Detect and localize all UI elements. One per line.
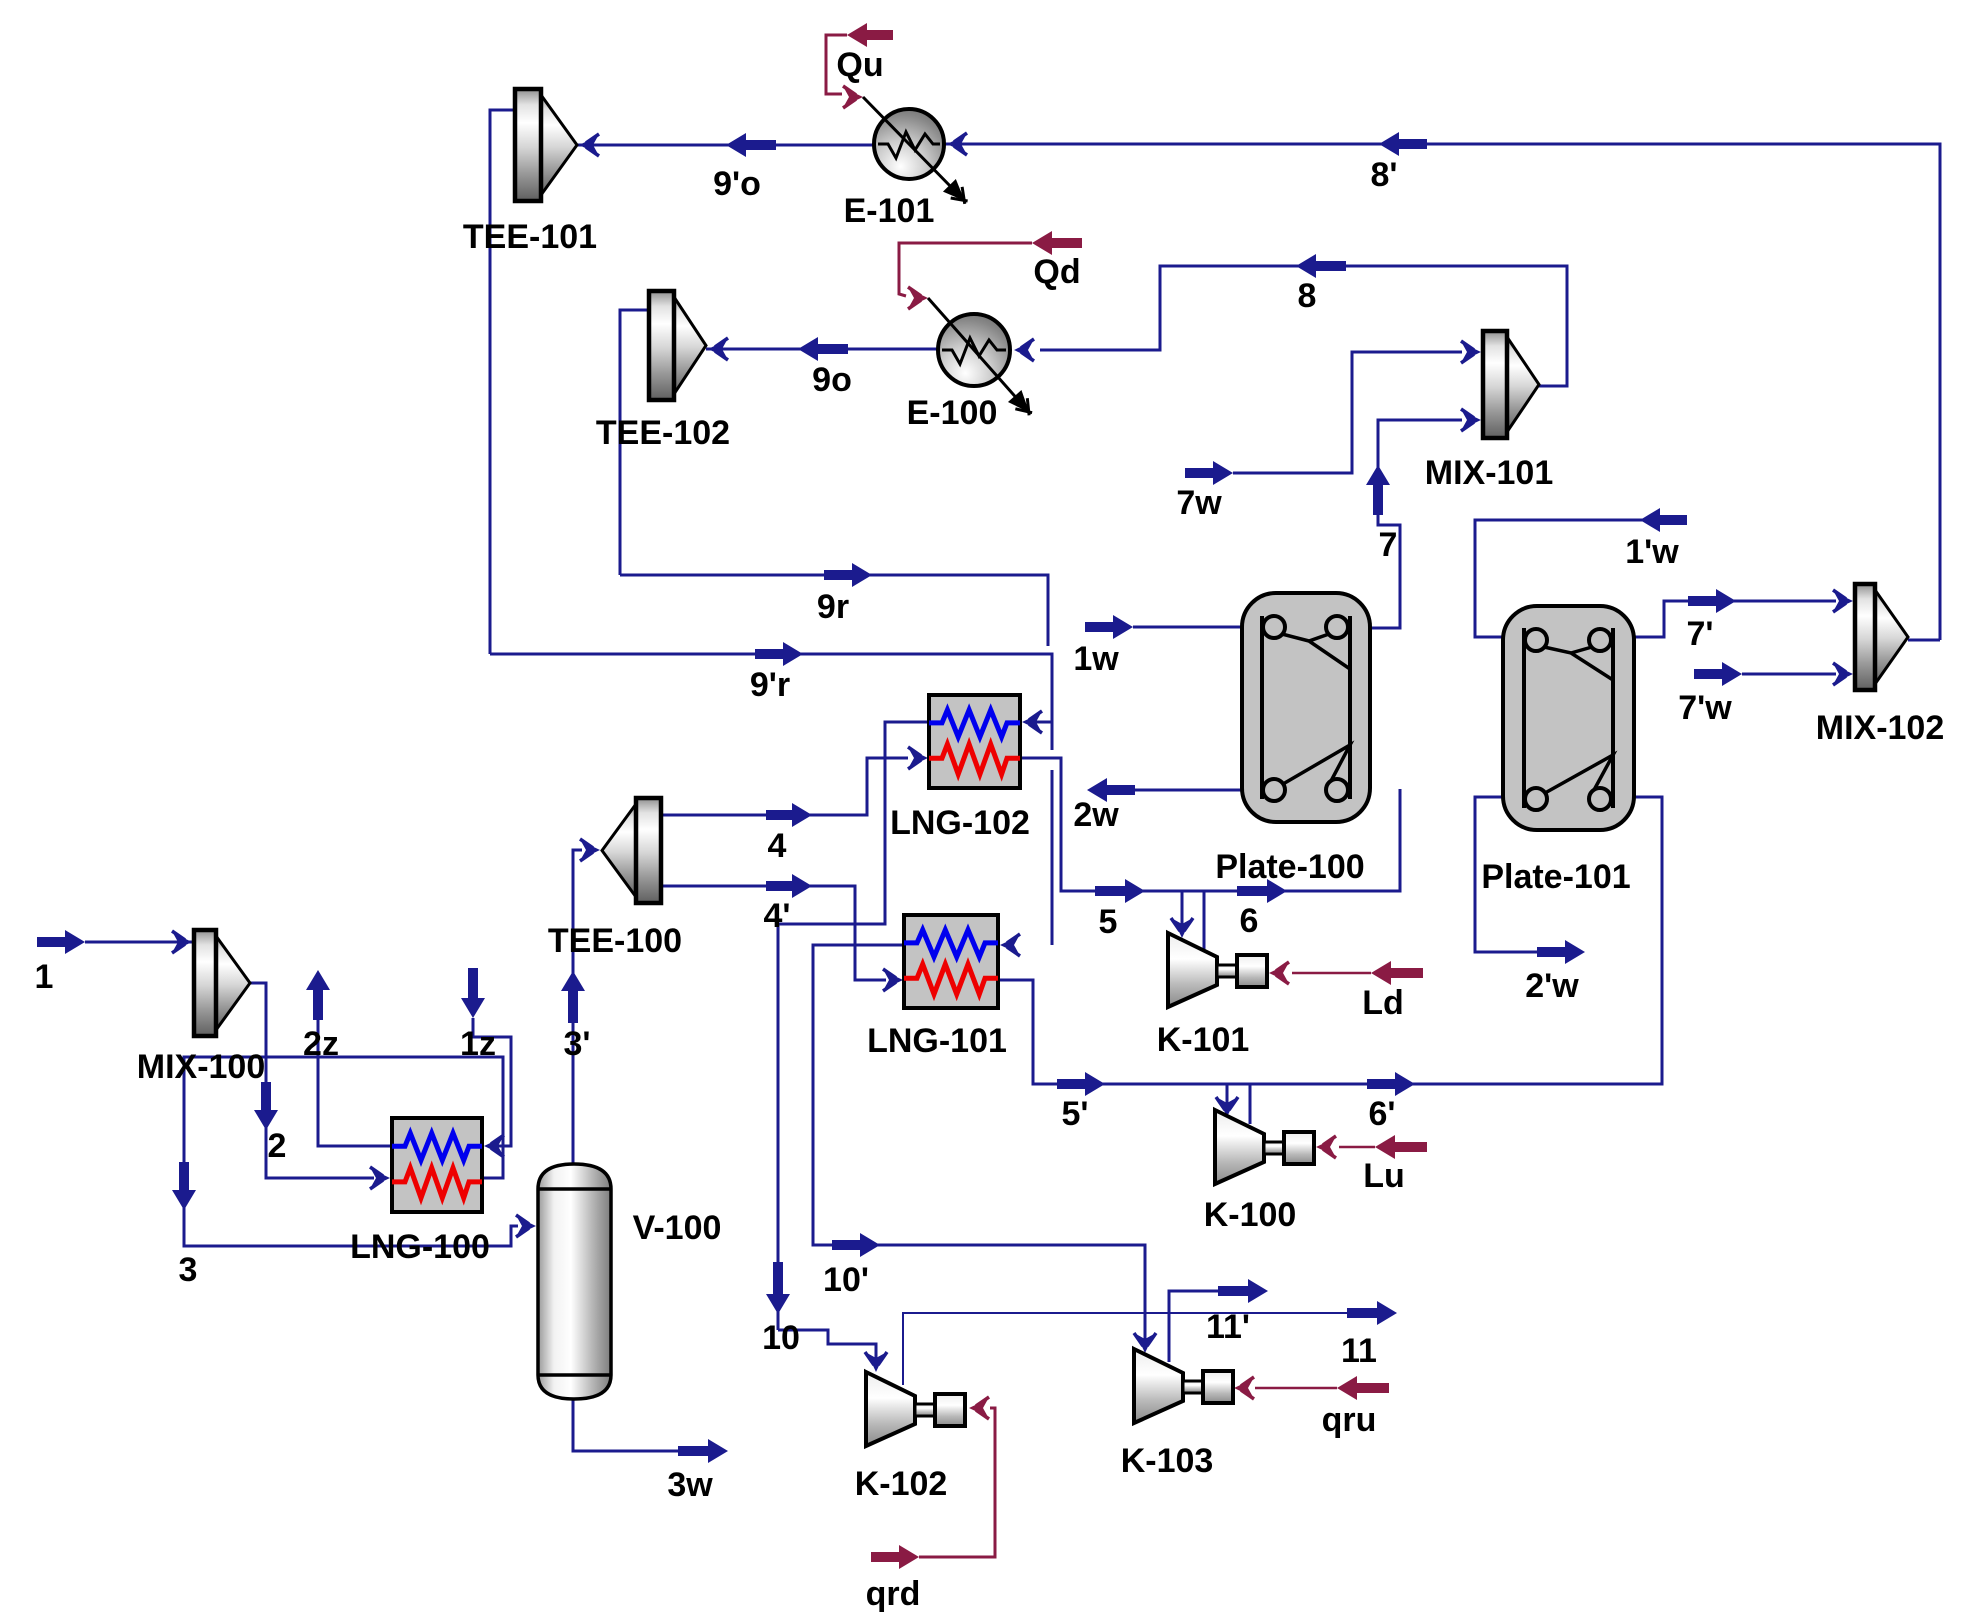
wire 7w bbox=[1185, 461, 1233, 485]
mixer MIX-102 bbox=[1855, 584, 1908, 690]
svg-text:Qd: Qd bbox=[1033, 253, 1080, 291]
separator V-100 bbox=[538, 1164, 611, 1399]
wire 5' and 6' bbox=[998, 797, 1662, 1084]
LNG exchanger LNG-100 bbox=[392, 1118, 482, 1212]
compressor K-103 bbox=[1134, 1349, 1233, 1423]
energy stream Ld bbox=[1371, 961, 1423, 985]
svg-text:LNG-102: LNG-102 bbox=[890, 804, 1030, 842]
wire 7' bbox=[1632, 601, 1836, 637]
svg-text:7w: 7w bbox=[1176, 484, 1222, 522]
wire 10' : LNG-101 blue out to K-103 bbox=[813, 945, 1145, 1340]
compressor K-102 bbox=[866, 1372, 965, 1446]
wire 2 : MIX-100 outlet to LNG-100 bbox=[250, 983, 374, 1178]
mixer MIX-101 bbox=[1483, 331, 1539, 438]
LNG exchanger LNG-101 bbox=[904, 915, 998, 1008]
svg-text:9'r: 9'r bbox=[750, 666, 790, 704]
svg-text:7: 7 bbox=[1379, 526, 1398, 564]
wire 7'w bbox=[1694, 662, 1742, 686]
svg-text:7'w: 7'w bbox=[1678, 689, 1732, 727]
svg-text:qru: qru bbox=[1322, 1401, 1377, 1439]
wire 8' bbox=[943, 144, 1940, 640]
svg-text:Plate-100: Plate-100 bbox=[1215, 848, 1364, 886]
compressor K-101 bbox=[1168, 933, 1267, 1007]
wire 10 : LNG-102 blue out to K-102 bbox=[778, 722, 929, 1330]
svg-text:10': 10' bbox=[823, 1261, 869, 1299]
svg-text:K-100: K-100 bbox=[1204, 1196, 1297, 1234]
svg-text:K-101: K-101 bbox=[1157, 1021, 1250, 1059]
svg-text:7': 7' bbox=[1687, 615, 1714, 653]
svg-text:2'w: 2'w bbox=[1525, 967, 1579, 1005]
wire 5 and 6 bbox=[1020, 758, 1400, 891]
wire 9r bbox=[620, 575, 1048, 646]
svg-text:5: 5 bbox=[1099, 903, 1118, 941]
svg-text:1: 1 bbox=[35, 958, 54, 996]
svg-text:6': 6' bbox=[1369, 1095, 1396, 1133]
svg-text:MIX-102: MIX-102 bbox=[1816, 709, 1945, 747]
svg-text:11: 11 bbox=[1341, 1332, 1377, 1370]
svg-text:E-100: E-100 bbox=[907, 394, 998, 432]
wire 8 bbox=[1040, 266, 1567, 386]
energy stream Lu bbox=[1375, 1135, 1427, 1159]
svg-text:11': 11' bbox=[1206, 1308, 1250, 1346]
svg-text:3: 3 bbox=[179, 1251, 198, 1289]
svg-text:10: 10 bbox=[762, 1319, 800, 1357]
LNG exchanger LNG-102 bbox=[929, 695, 1020, 788]
svg-text:2z: 2z bbox=[303, 1025, 339, 1063]
heat exchanger E-101 bbox=[863, 97, 968, 204]
energy stream qru bbox=[1337, 1376, 1389, 1400]
svg-text:1z: 1z bbox=[460, 1025, 496, 1063]
svg-text:8: 8 bbox=[1298, 277, 1317, 315]
svg-text:MIX-100: MIX-100 bbox=[137, 1048, 266, 1086]
svg-text:LNG-101: LNG-101 bbox=[867, 1022, 1007, 1060]
svg-text:Lu: Lu bbox=[1363, 1157, 1405, 1195]
wire 2w bbox=[1135, 789, 1244, 792]
svg-text:E-101: E-101 bbox=[844, 192, 935, 230]
energy stream qrd bbox=[871, 1545, 919, 1569]
wire 4 bbox=[661, 758, 908, 815]
energy stream Qu bbox=[847, 23, 893, 47]
wire TEE-101 outlet to 9'r bbox=[490, 110, 515, 654]
tee TEE-101 bbox=[515, 89, 577, 201]
svg-text:TEE-101: TEE-101 bbox=[463, 218, 597, 256]
svg-text:qrd: qrd bbox=[866, 1575, 921, 1613]
wire 2'w bbox=[1475, 797, 1537, 952]
svg-text:K-102: K-102 bbox=[855, 1465, 948, 1503]
compressor K-100 bbox=[1215, 1110, 1314, 1184]
svg-text:1'w: 1'w bbox=[1625, 533, 1679, 571]
svg-text:K-103: K-103 bbox=[1121, 1442, 1214, 1480]
svg-text:9o: 9o bbox=[812, 361, 852, 399]
svg-text:LNG-100: LNG-100 bbox=[350, 1228, 490, 1266]
heat exchanger E-100 bbox=[928, 298, 1032, 415]
wire 9o bbox=[706, 348, 940, 351]
wire 9'r bbox=[490, 654, 1052, 750]
plate exchanger Plate-101 bbox=[1503, 606, 1634, 830]
wire 9'o bbox=[577, 144, 875, 147]
wire 7 bbox=[1370, 420, 1462, 628]
wire 4' bbox=[661, 886, 886, 980]
wire 1z bbox=[461, 968, 485, 1018]
svg-text:3': 3' bbox=[564, 1025, 591, 1063]
svg-text:6: 6 bbox=[1240, 902, 1259, 940]
svg-text:MIX-101: MIX-101 bbox=[1425, 454, 1554, 492]
svg-text:8': 8' bbox=[1371, 156, 1398, 194]
svg-text:Ld: Ld bbox=[1362, 984, 1404, 1022]
wire 11 : K-102 outlet bbox=[903, 1313, 1347, 1385]
svg-text:V-100: V-100 bbox=[633, 1209, 722, 1247]
svg-text:TEE-100: TEE-100 bbox=[548, 922, 682, 960]
svg-text:1w: 1w bbox=[1073, 640, 1119, 678]
wire 2z bbox=[318, 1020, 392, 1146]
energy stream Qd bbox=[1032, 231, 1082, 255]
svg-text:4': 4' bbox=[764, 897, 791, 935]
svg-text:TEE-102: TEE-102 bbox=[596, 414, 730, 452]
svg-text:3w: 3w bbox=[667, 1466, 713, 1504]
wire 3w : V-100 bottom outlet bbox=[573, 1396, 678, 1451]
plate exchanger Plate-100 bbox=[1242, 593, 1370, 822]
mixer MIX-100 bbox=[194, 930, 250, 1036]
wire 1'w bbox=[1640, 508, 1687, 532]
wire 1w bbox=[1085, 615, 1133, 639]
svg-text:Qu: Qu bbox=[836, 46, 883, 84]
svg-text:4: 4 bbox=[768, 827, 787, 865]
svg-text:Plate-101: Plate-101 bbox=[1481, 858, 1630, 896]
svg-text:2: 2 bbox=[268, 1127, 287, 1165]
wire 1 : feed bbox=[37, 930, 85, 954]
svg-text:2w: 2w bbox=[1073, 796, 1119, 834]
wire 3' : V-100 top to TEE-100 bbox=[573, 850, 582, 1170]
wire 11' : K-103 outlet bbox=[1169, 1291, 1218, 1362]
tee TEE-102 bbox=[649, 291, 706, 400]
wire TEE-102 inlet bbox=[620, 310, 649, 575]
wire MIX-102 outlet bbox=[1908, 639, 1940, 642]
tee TEE-100 bbox=[602, 798, 661, 903]
wire 3 : LNG-100 red out to V-100 bbox=[184, 1057, 518, 1246]
svg-text:9r: 9r bbox=[817, 588, 849, 626]
svg-text:5': 5' bbox=[1062, 1095, 1089, 1133]
svg-text:9'o: 9'o bbox=[713, 165, 761, 203]
